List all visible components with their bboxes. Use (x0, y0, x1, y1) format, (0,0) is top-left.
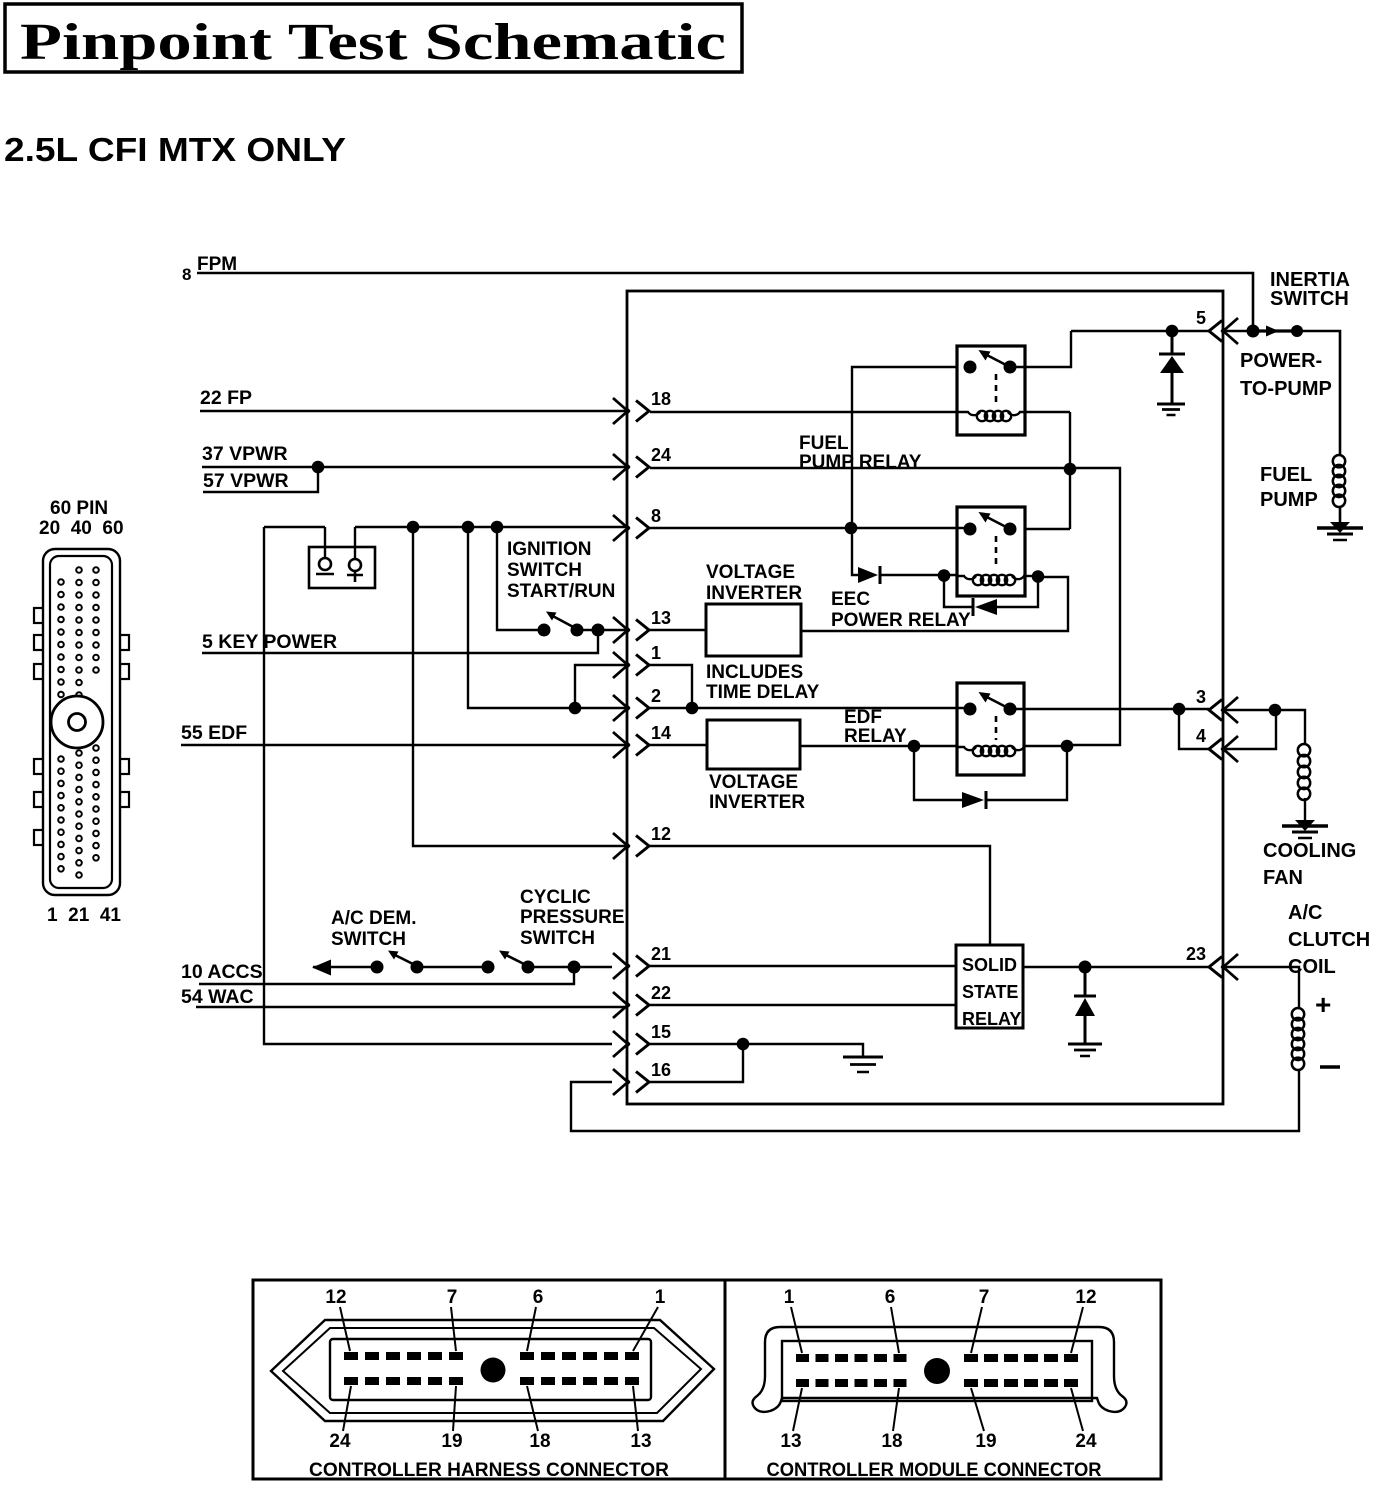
diode EEC coil feed (858, 566, 880, 584)
wire 54 WAC to pin 22 (196, 1006, 626, 1008)
pin 18 arrow into controller (left edge) (613, 389, 671, 424)
label A/C DEM. SWITCH (331, 908, 417, 950)
svg-text:22 FP: 22 FP (200, 387, 252, 409)
svg-text:5 KEY POWER: 5 KEY POWER (202, 631, 337, 653)
svg-text:10 ACCS: 10 ACCS (181, 961, 263, 983)
svg-text:PUMP RELAY: PUMP RELAY (799, 452, 922, 473)
wire cooling fan to ground (1304, 798, 1306, 820)
label INERTIA SWITCH (1270, 269, 1350, 310)
svg-text:13: 13 (651, 608, 671, 628)
svg-text:SWITCH: SWITCH (507, 560, 582, 581)
wire pin 18 to fuel pump relay coil (650, 411, 958, 413)
svg-text:13: 13 (630, 1431, 651, 1452)
in-line connector (battery terminals) (309, 527, 375, 588)
svg-text:22: 22 (651, 983, 671, 1003)
svg-text:COOLING: COOLING (1263, 840, 1356, 862)
junction pin 5 row / clamp diode (1166, 325, 1179, 338)
harness pin labels bottom (329, 1431, 651, 1452)
module pin labels bottom (780, 1431, 1097, 1452)
wire pin 22 to solid state relay (650, 1004, 956, 1006)
svg-text:SOLID: SOLID (962, 955, 1017, 975)
wire voltage inverter 1 output (801, 577, 1068, 631)
label COOLING FAN (1263, 840, 1356, 889)
label FUEL PUMP (1260, 464, 1318, 511)
bottom connector panel frame (253, 1280, 1161, 1479)
svg-text:START/RUN: START/RUN (507, 581, 615, 602)
harness connector keying hole (481, 1358, 506, 1383)
diode EEC coil bypass (973, 598, 997, 616)
svg-text:6: 6 (885, 1287, 896, 1308)
svg-text:CONTROLLER HARNESS CONNECTOR: CONTROLLER HARNESS CONNECTOR (309, 1460, 669, 1481)
internal ground pins 15/16 (843, 1056, 883, 1059)
svg-text:CLUTCH: CLUTCH (1288, 929, 1370, 951)
module connector keying hole (924, 1358, 950, 1384)
wire dropper to pins 1/2 (468, 527, 626, 708)
wire FPM to inertia switch (197, 273, 1253, 325)
wire pin1 riser from pin2 row (575, 665, 626, 708)
wire 10 ACCS to cyclic pressure switch (199, 967, 574, 984)
label A/C CLUTCH COIL (1288, 902, 1370, 978)
label IGNITION SWITCH START/RUN (507, 539, 615, 602)
pin 12 arrow into controller (left edge) (613, 824, 671, 859)
svg-text:57 VPWR: 57 VPWR (203, 470, 289, 492)
svg-text:16: 16 (651, 1060, 671, 1080)
pin 1 arrow into controller (left edge) (613, 643, 661, 678)
wire fuel pump relay contact to pin 5 row (1010, 331, 1071, 367)
A/C clutch coil (1292, 1008, 1304, 1020)
pin 15 arrow into controller (left edge) (613, 1022, 671, 1057)
svg-text:2: 2 (651, 686, 661, 706)
svg-text:5: 5 (1196, 308, 1206, 328)
voltage inverter 2 box (707, 720, 800, 769)
junction pins 3/4 external (1269, 704, 1282, 717)
svg-text:CYCLIC: CYCLIC (520, 887, 591, 908)
svg-text:23: 23 (1186, 944, 1206, 964)
svg-text:FUEL: FUEL (799, 433, 849, 454)
wire 57 VPWR joining 37 VPWR (203, 467, 318, 492)
wire 55 EDF to pin 14 (181, 744, 626, 746)
svg-text:20 40 60: 20 40 60 (39, 518, 124, 539)
svg-text:TO-PUMP: TO-PUMP (1240, 378, 1332, 400)
wire VPWR vertical x=1070 (1069, 412, 1071, 529)
svg-text:24: 24 (329, 1431, 351, 1452)
svg-text:12: 12 (651, 824, 671, 844)
wire dropper to pin 12 (413, 527, 626, 846)
junction EEC coil left (938, 569, 951, 582)
pin 16 arrow into controller (left edge) (613, 1060, 671, 1095)
svg-text:12: 12 (1075, 1287, 1096, 1308)
pin 14 arrow into controller (left edge) (613, 723, 671, 758)
junction SSR output / clamp diode (1079, 961, 1092, 974)
EEC power relay K2 coil (957, 575, 1025, 585)
controller module connector shell (753, 1327, 1127, 1412)
svg-text:60 PIN: 60 PIN (50, 498, 108, 519)
junction on pin 8 row (x=468) (462, 521, 475, 534)
svg-text:1: 1 (784, 1287, 795, 1308)
module connector pins row 2 (796, 1379, 1078, 1387)
svg-text:55 EDF: 55 EDF (181, 722, 247, 744)
svg-text:12: 12 (325, 1287, 346, 1308)
svg-text:24: 24 (651, 445, 671, 465)
label POWER-TO-PUMP (1240, 350, 1332, 400)
pin 13 arrow into controller (left edge) (613, 608, 671, 643)
fuel pump relay K1 box (957, 346, 1025, 435)
svg-text:SWITCH: SWITCH (331, 929, 406, 950)
ground at fuel pump (1330, 522, 1350, 533)
module connector pins row 1 (796, 1354, 1078, 1362)
junction on pin 8 row (x=497) (491, 521, 504, 534)
fuel pump relay K1 contact (964, 350, 1017, 405)
ground at pin 23 clamp diode (1068, 1043, 1102, 1046)
svg-text:INCLUDES: INCLUDES (706, 662, 803, 683)
pin 22 arrow into controller (left edge) (613, 983, 671, 1018)
wire dropper to ignition switch (497, 527, 544, 630)
wire diode to EEC coil (880, 574, 957, 576)
svg-text:3: 3 (1196, 687, 1206, 707)
svg-text:1 21 41: 1 21 41 (47, 905, 121, 926)
svg-text:VOLTAGE: VOLTAGE (709, 772, 798, 793)
svg-text:A/C DEM.: A/C DEM. (331, 908, 417, 929)
svg-text:15: 15 (651, 1022, 671, 1042)
solid state relay box (956, 945, 1023, 1028)
junction EEC coil right (1032, 570, 1045, 583)
svg-text:RELAY: RELAY (844, 726, 907, 747)
diode clamp at pin 5 to ground (1159, 331, 1185, 404)
svg-text:54 WAC: 54 WAC (181, 986, 254, 1008)
svg-text:A/C: A/C (1288, 902, 1322, 924)
pin 3 arrow into controller (right edge) (1196, 687, 1238, 723)
svg-text:POWER RELAY: POWER RELAY (831, 610, 971, 631)
svg-text:24: 24 (1075, 1431, 1097, 1452)
wire pin 4 external link (1224, 710, 1276, 749)
svg-text:8: 8 (651, 506, 661, 526)
pin 24 arrow into controller (left edge) (613, 445, 671, 480)
module pin labels top (784, 1287, 1097, 1308)
svg-text:7: 7 (979, 1287, 990, 1308)
ground at cooling fan (1295, 820, 1315, 831)
label CYCLIC PRESSURE SWITCH (520, 887, 625, 949)
svg-text:19: 19 (975, 1431, 996, 1452)
wire 5 KEY POWER to ignition switch (202, 630, 598, 653)
svg-text:PUMP: PUMP (1260, 489, 1318, 511)
pin 2 arrow into controller (left edge) (613, 686, 661, 721)
harness connector pins row 1 (344, 1352, 639, 1360)
EDF relay K3 box (957, 683, 1024, 775)
pin 8 arrow into controller (left edge) (613, 506, 661, 541)
wire pin 13 to voltage inverter 1 (650, 629, 706, 631)
wire pin 8 to EEC power relay contact (650, 527, 970, 529)
wire fuel pump to ground (1339, 506, 1342, 523)
title box "Pinpoint Test Schematic" (5, 4, 742, 72)
svg-text:CONTROLLER MODULE CONNECTOR: CONTROLLER MODULE CONNECTOR (767, 1460, 1102, 1481)
wire pin 24 VPWR rail (650, 468, 1120, 745)
EEC power relay K2 box (957, 507, 1025, 596)
module pin leader lines top (791, 1307, 1083, 1353)
junction EDF coil left (908, 740, 921, 753)
wire EDF coil bypass loop (914, 746, 1067, 800)
junction VPWR rail (1064, 463, 1077, 476)
junction EDF coil right (1061, 740, 1074, 753)
svg-text:2.5L CFI MTX ONLY: 2.5L CFI MTX ONLY (4, 131, 346, 168)
wire pin 5 internal row (1071, 330, 1209, 332)
svg-text:FAN: FAN (1263, 867, 1303, 889)
wire pin 12 to solid state relay (650, 846, 990, 945)
svg-text:PRESSURE: PRESSURE (520, 907, 625, 928)
controller module outline box (627, 291, 1223, 1104)
ignition switch START/RUN contacts (538, 612, 627, 637)
svg-text:INVERTER: INVERTER (706, 583, 802, 604)
wire A/C clutch coil return to pin 16 (571, 1070, 1299, 1131)
svg-text:IGNITION: IGNITION (507, 539, 591, 560)
wire fuel pump relay contact feed (852, 367, 957, 575)
wire pin 15 to internal ground (650, 1044, 863, 1057)
net 8 FPM label (182, 254, 237, 284)
A/C demand switch (312, 951, 488, 976)
label SOLID STATE RELAY (962, 955, 1021, 1029)
fuel pump relay K1 coil (957, 411, 1025, 421)
wire voltage inverter 2 to EDF relay coil (800, 745, 957, 747)
svg-text:SWITCH: SWITCH (520, 928, 595, 949)
wire pin 14 to voltage inverter 2 (650, 744, 707, 746)
svg-text:RELAY: RELAY (962, 1009, 1021, 1029)
cyclic pressure switch (482, 951, 613, 974)
wire solid state relay output to pin 23 (1023, 966, 1209, 968)
junction pins 15/16 (737, 1038, 750, 1051)
diode EDF coil bypass (962, 791, 986, 809)
svg-text:FUEL: FUEL (1260, 464, 1312, 486)
svg-text:+: + (1315, 989, 1331, 1020)
wire long vertical feed to pin 15 (264, 527, 612, 1044)
svg-text:18: 18 (651, 389, 671, 409)
wire pin 2 to EDF relay contact (650, 707, 970, 709)
junction on pin 8 row (x=413) (407, 521, 420, 534)
diode clamp at pin 23 to ground (1074, 967, 1096, 1044)
wire pin 5 to inertia switch (1224, 330, 1253, 332)
svg-text:EDF: EDF (844, 707, 882, 728)
wire inertia switch to fuel pump (1297, 331, 1340, 456)
wire battery feed to pin 8 row (264, 526, 325, 529)
EDF relay K3 coil (957, 746, 1024, 756)
junction pins 3/4 internal (1173, 703, 1186, 716)
svg-text:21: 21 (651, 944, 671, 964)
svg-text:INVERTER: INVERTER (709, 792, 805, 813)
module pin leader lines bottom (793, 1388, 1083, 1431)
svg-text:37 VPWR: 37 VPWR (202, 443, 288, 465)
svg-text:STATE: STATE (962, 982, 1018, 1002)
svg-text:4: 4 (1196, 726, 1206, 746)
wire pin 16 internal to pin 15 (650, 1044, 743, 1082)
cooling fan motor coil (1298, 744, 1310, 756)
junction 37/57 VPWR (312, 461, 325, 474)
wire pin 4 internal link (1179, 709, 1209, 749)
harness pin leader lines top (340, 1307, 658, 1351)
pin 4 arrow into controller (right edge) (1196, 726, 1238, 762)
svg-text:VOLTAGE: VOLTAGE (706, 562, 795, 583)
svg-text:19: 19 (441, 1431, 462, 1452)
label VOLTAGE INVERTER (lower) (709, 772, 805, 813)
inertia switch (1247, 325, 1304, 338)
harness pin labels top (325, 1287, 665, 1308)
label minus terminal (1320, 1065, 1340, 1069)
svg-text:7: 7 (447, 1287, 458, 1308)
wire EEC relay coil bypass loop (944, 576, 1038, 607)
wire fuel pump relay coil to VPWR rail (1024, 411, 1070, 413)
label INCLUDES TIME DELAY (706, 662, 820, 703)
junction pin 2 internal (686, 702, 699, 715)
wire EEC relay contact to VPWR rail (1025, 528, 1070, 530)
wire 22 FP to pin 18 (200, 410, 626, 412)
svg-text:SWITCH: SWITCH (1270, 288, 1349, 310)
fuel pump motor coil (1333, 455, 1345, 467)
60-pin connector J1 (controller) (34, 498, 129, 926)
svg-text:1: 1 (651, 643, 661, 663)
svg-text:Pinpoint Test Schematic: Pinpoint Test Schematic (20, 14, 726, 71)
label FUEL PUMP RELAY (799, 433, 922, 473)
svg-text:14: 14 (651, 723, 671, 743)
svg-text:EEC: EEC (831, 589, 870, 610)
voltage inverter 1 box (706, 604, 801, 656)
wire EDF relay coil right (1024, 745, 1067, 747)
label EEC POWER RELAY (831, 589, 971, 631)
harness connector pins row 2 (344, 1377, 639, 1385)
svg-text:8: 8 (182, 265, 191, 284)
svg-text:1: 1 (655, 1287, 666, 1308)
controller harness connector shell (271, 1320, 714, 1421)
svg-text:6: 6 (533, 1287, 544, 1308)
harness pin leader lines bottom (343, 1386, 638, 1431)
junction pin 8 / relay feed (845, 522, 858, 535)
EEC power relay K2 contact (964, 512, 1017, 569)
pin 21 arrow into controller (left edge) (613, 944, 671, 979)
wire pin 1 internal to pin 2 row (650, 665, 692, 708)
wire EEC relay coil right (1024, 575, 1038, 577)
wire 37 VPWR to pin 24 (202, 466, 626, 468)
svg-text:18: 18 (529, 1431, 550, 1452)
label VOLTAGE INVERTER (upper) (706, 562, 802, 604)
wire pin 23 to A/C clutch coil (1224, 967, 1299, 1008)
ground at pin 5 clamp diode (1157, 403, 1185, 406)
svg-text:13: 13 (780, 1431, 801, 1452)
wire pin 21 to solid state relay (650, 965, 956, 967)
svg-text:TIME DELAY: TIME DELAY (706, 682, 820, 703)
svg-text:18: 18 (881, 1431, 902, 1452)
junction pin2 row (569, 702, 582, 715)
wire pin 3 to cooling fan (1224, 710, 1305, 744)
EDF relay K3 contact (964, 692, 1017, 740)
label EDF RELAY (844, 707, 907, 747)
wire EDF relay contact to pins 3/4 (1011, 708, 1209, 710)
svg-text:POWER-: POWER- (1240, 350, 1322, 372)
pin 5 arrow into controller (right edge) (1196, 308, 1238, 344)
pin 23 arrow into controller (right edge) (1186, 944, 1238, 980)
